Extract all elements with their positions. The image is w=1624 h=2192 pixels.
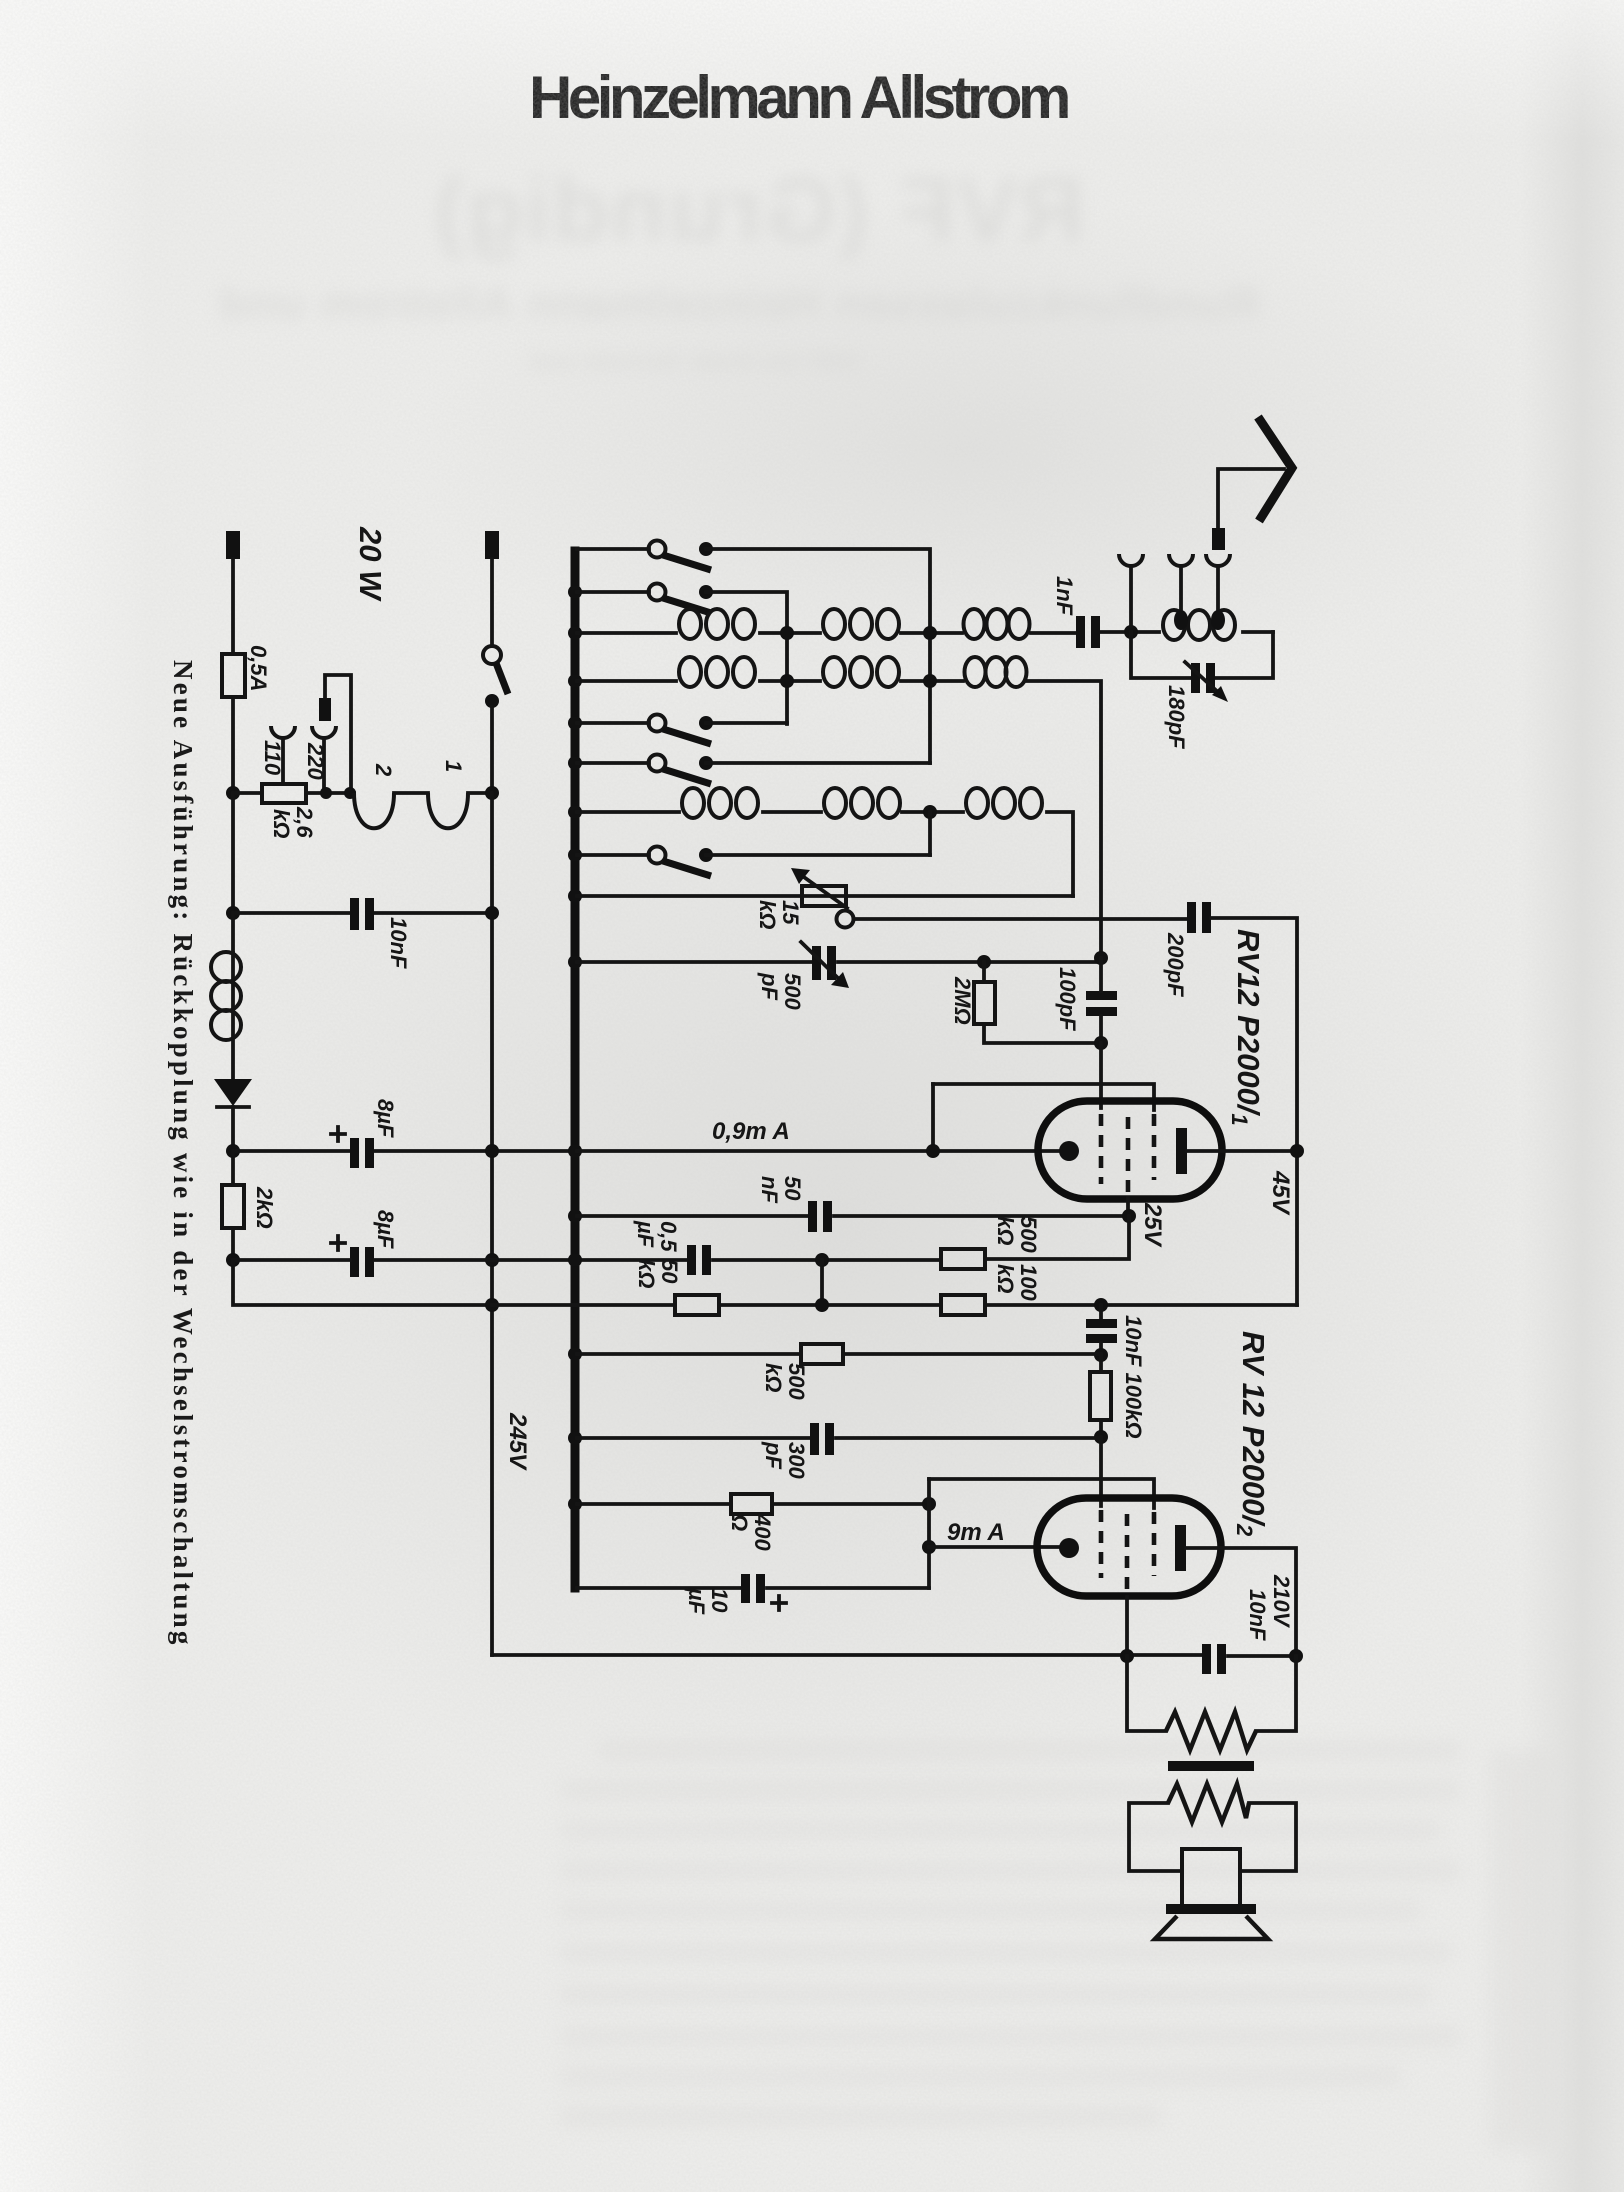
svg-text:10nF 100kΩ: 10nF 100kΩ [1121, 1315, 1146, 1439]
wire 500pF row [577, 960, 1101, 964]
capacitor 0,5uF [687, 1245, 696, 1275]
mains switch S1 [483, 646, 501, 664]
mains terminal right [485, 531, 499, 559]
grid g3 tube1 [1152, 1114, 1157, 1180]
svg-text:kΩ: kΩ [993, 1264, 1018, 1293]
wire grid chain [1099, 958, 1103, 1043]
g3 jog tube2 [929, 1479, 1154, 1508]
wire row4 [577, 681, 1101, 958]
wire switch down [490, 707, 494, 793]
wire row3 [577, 632, 1273, 633]
switch row6 [649, 755, 666, 772]
node screen2 bottom [1120, 1649, 1134, 1663]
svg-text:kΩ: kΩ [755, 900, 780, 929]
label 210V 10nF [1245, 1574, 1294, 1641]
node bus 500k row [568, 1347, 582, 1361]
plus sign 8uF1 [331, 1127, 345, 1141]
node link row A [815, 1253, 829, 1267]
wire terminal to fuse [231, 559, 235, 654]
wire 10nF row [233, 911, 492, 915]
node: 220 tap [320, 787, 332, 799]
anode tube1 [1176, 1128, 1187, 1174]
label 15 kOhm [755, 900, 803, 929]
coil L3b [823, 609, 845, 639]
wire primary legs [1127, 1656, 1296, 1731]
label 1 [441, 760, 466, 772]
svg-text:µF: µF [633, 1220, 658, 1248]
switch row5 [649, 715, 666, 732]
wire 500k row [577, 1352, 1101, 1356]
antenna symbol [1258, 417, 1292, 521]
label 110 [260, 740, 285, 776]
wire 245V line upper [490, 793, 494, 1655]
svg-text:kΩ: kΩ [993, 1216, 1018, 1245]
resistor 2kOhm [222, 1185, 244, 1228]
label 10nF [386, 917, 411, 969]
label 500 kOhm rowA [993, 1216, 1041, 1253]
svg-text:0,5: 0,5 [656, 1221, 681, 1252]
wire plug loop [325, 675, 351, 793]
tube V1 RV12 P2000/1 envelope [1038, 1101, 1222, 1199]
wire 8uF row 1 [233, 1149, 575, 1153]
wire row1 from bus [577, 547, 649, 551]
svg-text:245V: 245V [504, 1412, 531, 1471]
capacitor 10uF [741, 1574, 750, 1603]
wire 245V bottom row [492, 1655, 1296, 1656]
svg-text:25V: 25V [1139, 1202, 1166, 1248]
coil L7b [824, 788, 846, 818]
socket hook 1 [1119, 554, 1143, 566]
resistor 500 kOhm (row C) [801, 1344, 843, 1364]
svg-text:pF: pF [757, 972, 782, 1000]
wire 200pF to 45V line [1211, 918, 1297, 1305]
label 500 kOhm rowC [761, 1363, 809, 1400]
node 8uF row 2 left [226, 1253, 240, 1267]
svg-text:45V: 45V [1267, 1170, 1294, 1216]
node bus bottom / 10uF row [577, 1586, 929, 1590]
wire hook220 down [322, 738, 326, 790]
svg-text:µF: µF [684, 1587, 709, 1615]
caption: Neue Ausfuehrung [168, 660, 198, 1648]
mains terminal left [226, 531, 240, 559]
resistor 100kOhm (vertical) [1090, 1372, 1111, 1420]
node bus row7 [568, 805, 582, 819]
svg-text:0,5A: 0,5A [246, 645, 271, 691]
capacitor 200pF [1187, 902, 1196, 933]
resistor 50 kOhm [675, 1295, 719, 1315]
node bus 300pF row [568, 1431, 582, 1445]
label 10 uF [684, 1587, 732, 1615]
page title [529, 63, 1069, 132]
plug 2 [1174, 610, 1188, 630]
wire row8 from bus [577, 853, 649, 857]
anode tube2 [1175, 1525, 1186, 1571]
svg-text:9m A: 9m A [947, 1519, 1005, 1546]
wire anode tube1 [1187, 1149, 1297, 1153]
svg-text:500: 500 [784, 1363, 809, 1400]
label 50 nF [757, 1176, 805, 1203]
cathode tube1 [1059, 1141, 1079, 1161]
node x492 8uF row1 [485, 1144, 499, 1158]
svg-text:Ω: Ω [727, 1513, 752, 1531]
resistor 2 MOhm [974, 982, 995, 1024]
coil L4c [965, 657, 986, 687]
label 100 kOhm rowB [993, 1264, 1041, 1301]
switch row1 [649, 541, 666, 558]
node row3 x787 [780, 626, 794, 640]
node bus row5 [568, 716, 582, 730]
node anode2 bottom [1289, 1649, 1303, 1663]
resistor 400 Ohm [731, 1494, 772, 1514]
node row4 x787 [780, 674, 794, 688]
wire screen2 to bottom row [1125, 1597, 1129, 1656]
svg-text:180pF: 180pF [1164, 685, 1189, 749]
cathode tube2 [1059, 1538, 1079, 1558]
wire row6 to column [706, 761, 930, 765]
diode D1 [214, 1079, 252, 1106]
svg-text:100: 100 [1016, 1264, 1041, 1301]
node bus 15k row [568, 889, 582, 903]
wire 10nF to node [1099, 1343, 1103, 1355]
node x492 10nF [485, 906, 499, 920]
resistor 100 kOhm (row B) [941, 1295, 985, 1315]
wire 300pF row [577, 1436, 1101, 1440]
speaker magnet bar [1166, 1904, 1256, 1914]
capacitor 1nF [1076, 616, 1085, 648]
node 500pF/2M [977, 955, 991, 969]
wire hook110 to resistor [281, 738, 285, 784]
svg-text:200pF: 200pF [1163, 932, 1188, 997]
resistor 2,6 kOhm [262, 784, 306, 803]
node bus row8 [568, 848, 582, 862]
fuse F1 0,5A [222, 654, 245, 697]
capacitor 300pF [810, 1423, 819, 1455]
node 2M bottom [1094, 1036, 1108, 1050]
wire row1 to column [706, 549, 930, 763]
node bus 400 row [568, 1497, 582, 1511]
svg-text:500: 500 [1016, 1216, 1041, 1253]
label 245V [504, 1412, 531, 1471]
label 220 [303, 742, 328, 780]
svg-text:8µF: 8µF [373, 1099, 398, 1138]
node g3/cathode [926, 1144, 940, 1158]
socket hook 110 [271, 726, 295, 738]
svg-text:0,9m A: 0,9m A [712, 1118, 790, 1145]
node 10nF row left [226, 906, 240, 920]
svg-text:2,6: 2,6 [292, 806, 317, 838]
wire anode tube2 [1186, 1548, 1296, 1656]
label 0,5 uF [633, 1220, 681, 1252]
coil L4a [679, 657, 701, 687]
pot wiper [837, 911, 854, 928]
plus sign 8uF2 [331, 1236, 345, 1250]
grid g1 tube1 [1099, 1114, 1104, 1184]
wire cathode row tube2 [929, 1545, 1060, 1549]
node 400/cathode2 [922, 1497, 936, 1511]
svg-text:kΩ: kΩ [761, 1363, 786, 1392]
grid g1 tube2 [1099, 1510, 1104, 1578]
coil L3c [964, 609, 985, 639]
wire row B [492, 1303, 1297, 1307]
label 2kOhm [252, 1186, 277, 1229]
chassis bus [571, 551, 580, 1588]
wire screen to 50nF row [1126, 1198, 1130, 1216]
node heater/switch [485, 786, 499, 800]
svg-text:110: 110 [260, 740, 285, 776]
cathode2 column [927, 1479, 931, 1588]
tube V2 RV12 P2000/2 envelope [1037, 1498, 1221, 1596]
capacitor 100pF [1086, 991, 1117, 1000]
transformer core [1168, 1761, 1254, 1771]
antenna lead [1218, 469, 1284, 528]
svg-text:50: 50 [657, 1259, 682, 1284]
wire fuse to tap row [231, 697, 235, 793]
svg-text:1: 1 [441, 760, 466, 772]
wire tap row [233, 791, 354, 795]
wire link rowA-rowB [820, 1260, 824, 1305]
label 2 [371, 763, 396, 777]
node link row B [815, 1298, 829, 1312]
wire secondary legs [1129, 1803, 1296, 1871]
node anode/45V [1290, 1144, 1304, 1158]
plug 3 [1211, 610, 1225, 630]
wire 50nF row [577, 1214, 1129, 1218]
screen grid tube2 [1125, 1514, 1130, 1595]
wire to 2k [231, 1151, 235, 1185]
wire 2k to row [231, 1228, 235, 1260]
label 500 pF [757, 972, 805, 1010]
svg-text:300: 300 [784, 1442, 809, 1479]
node 8uF row left [226, 1144, 240, 1158]
wire 180pF loop [1131, 632, 1273, 678]
wire left col to 10nF row [231, 793, 235, 913]
wire 50nF to row A corner [985, 1216, 1129, 1259]
wire row6 from bus [577, 761, 649, 765]
arrow pot [801, 875, 847, 908]
label 50 kOhm [634, 1259, 682, 1288]
label 45V [1267, 1170, 1294, 1216]
wire to coupling coil [231, 913, 235, 953]
node bus 0,9mA row [568, 1144, 582, 1158]
svg-text:kΩ: kΩ [269, 809, 294, 838]
resistor 500 kOhm (row A) [941, 1249, 985, 1269]
wire hook3 to plug [1216, 566, 1220, 612]
switch row2 [649, 584, 666, 601]
svg-text:pF: pF [761, 1441, 786, 1469]
node x492 row B [485, 1298, 499, 1312]
wire cathode row tube1 [577, 1149, 1060, 1153]
svg-text:10nF: 10nF [1245, 1589, 1270, 1641]
antenna coil L-ant [1163, 610, 1185, 640]
svg-text:Neue Ausführung: Rückkopplung: Neue Ausführung: Rückkopplung wie in der… [168, 660, 198, 1648]
svg-text:nF: nF [757, 1176, 782, 1203]
node bus 500pF row [568, 955, 582, 969]
transformer primary [1166, 1712, 1256, 1750]
wire row2 to column [706, 592, 787, 724]
label 400 Ohm [727, 1513, 775, 1551]
capacitor 10nF [350, 898, 359, 930]
node antenna junction [1124, 625, 1138, 639]
svg-text:10: 10 [707, 1588, 732, 1613]
wire row5 to column [706, 721, 787, 725]
wire left col bottom corner [233, 1260, 492, 1305]
svg-text:2MΩ: 2MΩ [950, 976, 975, 1025]
heater element hump 1 [354, 793, 394, 828]
node 300pF row / chain [1094, 1430, 1108, 1444]
node row3 x930 [923, 626, 937, 640]
svg-text:15: 15 [778, 900, 803, 925]
wire hook1 down [1129, 566, 1133, 626]
coil L7a [682, 788, 704, 818]
svg-text:50: 50 [780, 1176, 805, 1201]
svg-text:kΩ: kΩ [634, 1259, 659, 1288]
node: fuse/tap junction [226, 786, 240, 800]
wire row5 from bus [577, 721, 649, 725]
node row B / grid chain [1094, 1298, 1108, 1312]
plus sign 10uF [772, 1596, 786, 1610]
heater element hump 2 [428, 793, 468, 828]
wire g3 to cathode row [931, 1084, 935, 1151]
capacitor 8uF no.1 [350, 1138, 359, 1168]
coil L4b [823, 657, 845, 687]
wire wiper to 200pF [854, 917, 1189, 921]
capacitor 8uF no.2 [350, 1247, 359, 1277]
capacitor 180pF trimmer [1191, 663, 1200, 693]
arrow 180pF [1185, 662, 1220, 694]
label 1nF [1052, 576, 1077, 616]
label 180pF [1164, 685, 1189, 749]
svg-text:220: 220 [303, 742, 328, 780]
label 8uF 2 [373, 1210, 398, 1249]
wire 15k row [577, 894, 1073, 898]
node bus 50nF row [568, 1209, 582, 1223]
wire row8 column [928, 812, 932, 855]
node 500k row / chain [1094, 1348, 1108, 1362]
label 300 pF [761, 1441, 809, 1479]
wire chain to 10nF [1099, 1305, 1103, 1320]
node row4 x930 [923, 674, 937, 688]
capacitor 50nF [808, 1201, 817, 1232]
node row7 x930 [923, 805, 937, 819]
transformer secondary [1168, 1784, 1249, 1822]
switch row8 [649, 847, 666, 864]
wire row8 to column [706, 853, 930, 857]
svg-text:8µF: 8µF [373, 1210, 398, 1249]
wire 400 row [577, 1502, 929, 1506]
svg-text:210V: 210V [1269, 1574, 1294, 1629]
label 200pF [1163, 932, 1188, 997]
node: plug loop tap [344, 787, 356, 799]
potentiometer 15 kOhm [802, 886, 846, 906]
node bus row6 [568, 756, 582, 770]
svg-text:20 W: 20 W [353, 526, 388, 602]
speaker driver [1182, 1849, 1240, 1906]
svg-text:10nF: 10nF [386, 917, 411, 969]
label 10nF 100kOhm [1121, 1315, 1146, 1439]
socket hook 2 [1169, 554, 1193, 566]
svg-text:RV12 P2000/1: RV12 P2000/1 [1227, 929, 1266, 1126]
grid g3 tube2 [1152, 1512, 1157, 1576]
label RV12 P2000/2 [1232, 1331, 1271, 1537]
svg-text:RV 12 P2000/2: RV 12 P2000/2 [1232, 1331, 1271, 1537]
wire row7 [577, 812, 1073, 896]
svg-text:2: 2 [371, 763, 396, 777]
coil L3a [679, 609, 701, 639]
wire hook2 to plug [1179, 566, 1183, 612]
node grid1 top [1094, 951, 1108, 965]
coil L7c [966, 788, 988, 818]
svg-text:2kΩ: 2kΩ [252, 1186, 277, 1229]
voltage tap plug [319, 698, 331, 721]
capacitor 10nF (coupling) [1086, 1319, 1117, 1328]
svg-text:1nF: 1nF [1052, 576, 1077, 616]
node cathode2 [922, 1540, 936, 1554]
node bus row2 [568, 585, 582, 599]
label 2MOhm [950, 976, 975, 1025]
socket hook 220 [312, 726, 336, 738]
label 0,5A [246, 645, 271, 691]
svg-text:100pF: 100pF [1055, 967, 1080, 1031]
wire diode to 8uF row [231, 1107, 235, 1151]
antenna plug [1212, 528, 1225, 550]
label RV12 P2000/1 [1227, 929, 1266, 1126]
socket hook 3 [1206, 554, 1230, 566]
wire grid into tube1 [1099, 1043, 1103, 1108]
svg-text:500: 500 [780, 973, 805, 1010]
label 20 W [353, 526, 388, 602]
node screen/50nF [1122, 1209, 1136, 1223]
node bus row3 [568, 626, 582, 640]
label 25V [1139, 1202, 1166, 1248]
node bus row A [568, 1253, 582, 1267]
label 100pF [1055, 967, 1080, 1031]
label 2,6 kOhm [269, 806, 317, 838]
label 8uF 1 [373, 1099, 398, 1138]
wire row A [233, 1258, 941, 1262]
wire heater segments [394, 791, 492, 795]
screen grid tube1 [1126, 1117, 1131, 1196]
speaker cone [1155, 1916, 1268, 1939]
capacitor 500pF trimmer [812, 946, 821, 980]
wire terminal to switch [490, 559, 494, 646]
arrow 500pF [801, 942, 840, 980]
wire grid into tube2 [1099, 1437, 1103, 1506]
g3 jog tube1 [933, 1084, 1154, 1110]
capacitor 10nF (output) [1202, 1644, 1211, 1674]
node bus row4 [568, 674, 582, 688]
node x492 row A [485, 1253, 499, 1267]
coil L-fb (feedback winding) [211, 952, 241, 982]
wire row2 from bus [577, 590, 649, 594]
svg-text:400: 400 [750, 1513, 775, 1551]
